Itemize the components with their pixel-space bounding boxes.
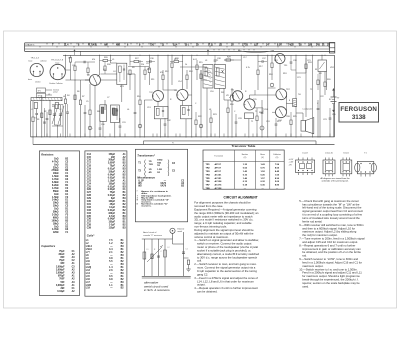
svg-text:base: base xyxy=(29,61,33,63)
wire xyxy=(65,55,67,70)
svg-text:1kΩ: 1kΩ xyxy=(54,226,59,228)
wire xyxy=(191,55,193,137)
svg-text:AC151: AC151 xyxy=(215,173,223,176)
wire xyxy=(148,55,150,68)
svg-text:L6: L6 xyxy=(127,109,129,111)
svg-text:4.7k: 4.7k xyxy=(246,67,250,69)
svg-text:1-5kΩ: 1-5kΩ xyxy=(52,197,59,199)
svg-text:75pF: 75pF xyxy=(110,166,116,168)
svg-text:in Sch. A receivers.: in Sch. A receivers. xyxy=(144,288,171,292)
component table column 2 box xyxy=(85,151,127,296)
svg-text:R19: R19 xyxy=(283,73,287,75)
battery 9V xyxy=(331,96,337,98)
resistor R25 xyxy=(290,120,292,125)
svg-text:1-5kΩ: 1-5kΩ xyxy=(52,176,59,178)
svg-text:console “V” receivers: console “V” receivers xyxy=(143,235,162,237)
svg-text:C12: C12 xyxy=(146,63,150,65)
svg-text:used.: used. xyxy=(302,284,309,288)
svg-text:STAGE 5: STAGE 5 xyxy=(25,44,35,47)
svg-text:aerial: aerial xyxy=(178,231,183,233)
transistor pinout view TR.1,2,3 xyxy=(30,63,43,76)
svg-text:TR7: TR7 xyxy=(286,89,290,91)
svg-text:80F: 80F xyxy=(61,257,66,259)
svg-text:R12: R12 xyxy=(165,71,169,73)
resistor R9 xyxy=(129,70,131,75)
svg-text:Loudspeaker: Loudspeaker xyxy=(303,107,313,110)
svg-text:Capacitors: Capacitors xyxy=(41,244,55,248)
resistor R6 xyxy=(74,95,76,100)
transistor TR8 xyxy=(276,107,287,118)
svg-text:FLT(4.6): FLT(4.6) xyxy=(88,44,97,47)
svg-text:T2: T2 xyxy=(216,60,218,62)
electrolytic capacitor C20 xyxy=(270,83,274,87)
resistor R3 xyxy=(49,110,51,115)
chassis bottom rail wire xyxy=(31,136,335,138)
svg-text:AF117: AF117 xyxy=(215,167,222,170)
svg-text:Collector: Collector xyxy=(273,153,281,156)
IF transformer IFT3 box xyxy=(181,106,192,119)
capacitor C2 xyxy=(46,112,48,118)
wire xyxy=(223,88,225,100)
aerial inset vertical wire 4 xyxy=(164,239,166,276)
svg-text:R26: R26 xyxy=(104,57,108,59)
svg-text:100µF: 100µF xyxy=(108,201,115,203)
svg-text:700F: 700F xyxy=(59,279,65,281)
svg-text:C35: C35 xyxy=(87,216,92,218)
svg-text:Miscellaneous: Miscellaneous xyxy=(137,175,155,179)
resistor R16 xyxy=(227,108,229,113)
capacitor C5 xyxy=(84,105,86,112)
svg-text:R18: R18 xyxy=(269,74,273,76)
detector winding xyxy=(216,68,219,76)
svg-text:270kΩ: 270kΩ xyxy=(52,170,59,172)
wire xyxy=(219,88,221,137)
svg-text:3(6): 3(6) xyxy=(308,45,312,47)
coil base diagram driver transformer xyxy=(341,152,352,177)
aerial inset coil 1 xyxy=(143,252,146,259)
svg-text:(7.3): (7.3) xyxy=(208,45,213,47)
capacitor C34 xyxy=(275,123,278,125)
svg-text:CIRCUIT ALIGNMENT: CIRCUIT ALIGNMENT xyxy=(224,195,258,199)
svg-text:R23: R23 xyxy=(213,114,217,116)
svg-text:L3/L4: L3/L4 xyxy=(86,245,93,248)
svg-text:2): 2) xyxy=(162,45,164,47)
svg-text:R30: R30 xyxy=(107,64,111,66)
output transformer T1 diagram xyxy=(355,153,377,177)
svg-text:emitter: emitter xyxy=(35,81,41,84)
svg-text:200pF: 200pF xyxy=(108,160,115,162)
resistor R26 xyxy=(103,59,108,61)
svg-text:AF117: AF117 xyxy=(215,163,222,166)
svg-text:1k: 1k xyxy=(185,64,187,66)
resistor R5 xyxy=(69,58,71,63)
svg-text:0.01µF: 0.01µF xyxy=(108,169,116,171)
svg-text:R1: R1 xyxy=(37,119,39,121)
svg-text:R6: R6 xyxy=(77,91,79,93)
svg-text:C34: C34 xyxy=(87,212,92,215)
svg-text:75pF: 75pF xyxy=(59,260,65,262)
capacitor C40 xyxy=(43,121,46,123)
component value annotations xyxy=(37,57,336,127)
svg-text:7Ω: 7Ω xyxy=(149,161,152,163)
capacitor C32 xyxy=(164,123,167,125)
svg-text:R15: R15 xyxy=(199,62,203,64)
svg-text:C22: C22 xyxy=(320,96,324,98)
svg-text:4Ω: 4Ω xyxy=(149,171,152,174)
svg-text:2,000pF: 2,000pF xyxy=(56,266,65,268)
resistor R10 xyxy=(139,100,141,105)
wire xyxy=(295,55,297,98)
IFT1 capacitor C8 xyxy=(123,68,125,70)
svg-text:75pF: 75pF xyxy=(59,251,65,253)
svg-text:L3: L3 xyxy=(48,94,50,96)
aerial inset arrow xyxy=(147,247,162,262)
svg-text:C38: C38 xyxy=(217,58,221,60)
svg-text:29F: 29F xyxy=(111,157,116,159)
svg-text:L1: L1 xyxy=(31,109,33,111)
svg-text:22kΩ: 22kΩ xyxy=(53,167,59,169)
svg-text:TP2: TP2 xyxy=(38,96,41,98)
svg-text:C35: C35 xyxy=(332,114,336,116)
svg-text:C32: C32 xyxy=(167,120,171,122)
svg-text:C32: C32 xyxy=(87,207,92,209)
wire xyxy=(240,55,242,90)
negative supply rail wire xyxy=(33,144,335,146)
resistor R17 xyxy=(257,70,259,75)
svg-text:AC128: AC128 xyxy=(215,187,223,190)
svg-text:(L)4: (L)4 xyxy=(173,44,178,47)
svg-text:0.02µF: 0.02µF xyxy=(108,177,116,179)
svg-text:R7: R7 xyxy=(82,96,84,98)
svg-text:6-8kΩ: 6-8kΩ xyxy=(52,182,59,184)
aerial inset vertical wire 1 xyxy=(143,239,145,276)
capacitor C10 xyxy=(134,100,136,112)
svg-text:4-7kΩ: 4-7kΩ xyxy=(52,178,59,181)
svg-text:320pF: 320pF xyxy=(108,213,115,215)
svg-text:R5: R5 xyxy=(73,65,75,67)
IFT3 capacitor xyxy=(187,109,189,111)
svg-text:C30: C30 xyxy=(101,124,105,126)
capacitor C36 xyxy=(149,60,151,63)
svg-text:L1: L1 xyxy=(147,249,149,251)
svg-text:8µF: 8µF xyxy=(111,198,116,200)
svg-text:4-7kΩ: 4-7kΩ xyxy=(52,160,59,163)
svg-text:C20: C20 xyxy=(87,172,92,174)
resistor R4 xyxy=(64,99,66,104)
resistor R29 xyxy=(226,59,231,61)
svg-text:2,000pF: 2,000pF xyxy=(56,273,65,275)
svg-text:C13: C13 xyxy=(147,107,151,109)
svg-text:AC176: AC176 xyxy=(215,184,223,187)
transistor TR1 xyxy=(90,75,101,86)
oscillator coil box xyxy=(203,65,213,89)
svg-text:0.04µF: 0.04µF xyxy=(108,188,116,191)
svg-text:Resistors: Resistors xyxy=(41,153,54,157)
svg-text:C28: C28 xyxy=(87,195,92,197)
svg-text:C16: C16 xyxy=(210,91,214,93)
svg-text:*: * xyxy=(137,191,138,193)
svg-text:R33: R33 xyxy=(308,62,312,64)
svg-text:R31: R31 xyxy=(147,69,151,71)
aerial coil L1 xyxy=(34,103,37,109)
resistor R32 xyxy=(200,74,202,79)
svg-text:1kΩ: 1kΩ xyxy=(54,209,59,211)
junction dots on rails xyxy=(65,55,66,56)
svg-text:Aerial circuit of: Aerial circuit of xyxy=(143,231,157,234)
bias network wire xyxy=(75,61,95,63)
transistor TR2 xyxy=(153,91,164,102)
resistor R36 xyxy=(87,68,89,73)
svg-text:P1: P1 xyxy=(172,143,174,145)
svg-text:to 30V d.c. range across the l: to 30V d.c. range across the loudspeaker… xyxy=(197,255,258,259)
resistor R34 xyxy=(317,80,319,85)
svg-text:TR.1,2,3: TR.1,2,3 xyxy=(31,57,40,59)
svg-text:4-7kΩ: 4-7kΩ xyxy=(52,228,59,231)
svg-text:L5/L6: L5/L6 xyxy=(86,249,93,251)
svg-text:C19: C19 xyxy=(266,121,270,123)
svg-text:3,000pF: 3,000pF xyxy=(56,285,65,287)
svg-text:Transistor: Transistor xyxy=(214,155,223,158)
aerial coil L2 xyxy=(55,103,58,109)
wire xyxy=(94,86,96,137)
svg-text:C30: C30 xyxy=(87,201,92,203)
IF transformer box L5 xyxy=(100,105,107,122)
svg-text:underside of the printed panel: underside of the printed panel. xyxy=(321,180,348,183)
wire xyxy=(305,55,307,117)
svg-text:3,000pF: 3,000pF xyxy=(56,269,65,271)
svg-text:C24: C24 xyxy=(87,182,92,185)
svg-text:–1.6V: –1.6V xyxy=(289,162,294,164)
svg-text:39kΩ: 39kΩ xyxy=(53,212,59,214)
svg-text:(V): (V) xyxy=(276,157,279,159)
svg-text:aerial: aerial xyxy=(53,92,58,94)
transistor pinout view TR.4,5,6,7,8 xyxy=(50,64,65,79)
svg-text:C37: C37 xyxy=(262,58,266,60)
svg-text:(V): (V) xyxy=(244,157,247,159)
svg-text:L9: L9 xyxy=(205,60,207,62)
svg-text:50F: 50F xyxy=(61,282,66,284)
svg-text:0.01: 0.01 xyxy=(193,59,197,61)
tuning gang frame xyxy=(52,104,63,106)
svg-text:Emitter: Emitter xyxy=(242,153,249,156)
svg-text:AC128: AC128 xyxy=(215,180,223,183)
wire xyxy=(312,55,314,137)
svg-text:receivers.: receivers. xyxy=(141,205,152,207)
resistor R18 xyxy=(271,63,273,68)
IFT1 tuned winding L5 xyxy=(119,66,122,72)
svg-text:17-25: 17-25 xyxy=(242,45,249,47)
svg-text:0.04µF: 0.04µF xyxy=(108,173,116,176)
electrolytic capacitor C15 xyxy=(199,124,203,128)
svg-text:be obtained, and the position: be obtained, and the position of L2 on t… xyxy=(302,250,361,254)
IFT3 winding xyxy=(182,108,185,115)
wire xyxy=(286,96,288,111)
aerial inset top rail wire xyxy=(142,238,173,240)
driver transformer T1 box xyxy=(245,113,254,119)
svg-text:VR2: VR2 xyxy=(330,67,334,69)
wire xyxy=(80,51,82,55)
svg-text:L5-L8: L5-L8 xyxy=(302,153,308,155)
svg-text:0.01µF: 0.01µF xyxy=(108,195,116,197)
svg-text:TR.4,5,6,7,8: TR.4,5,6,7,8 xyxy=(51,59,64,61)
svg-text:W1: W1 xyxy=(221,92,224,94)
svg-text:L15: L15 xyxy=(86,276,91,278)
svg-text:C17: C17 xyxy=(87,163,92,165)
component table column 1 box xyxy=(39,151,79,296)
resistor R23 xyxy=(210,118,212,123)
svg-text:C39: C39 xyxy=(87,228,92,230)
wire xyxy=(249,95,251,99)
svg-text:C16: C16 xyxy=(87,160,92,162)
svg-text:L13: L13 xyxy=(86,270,91,272)
svg-text:C17: C17 xyxy=(243,57,247,59)
svg-text:L14: L14 xyxy=(86,272,91,275)
svg-text:C33: C33 xyxy=(87,210,92,212)
svg-text:+0.1V: +0.1V xyxy=(289,159,295,161)
svg-text:IFT1: IFT1 xyxy=(120,86,124,88)
svg-text:3-9kΩ: 3-9kΩ xyxy=(52,200,59,202)
electrolytic capacitor C11 xyxy=(138,124,142,128)
svg-text:R20: R20 xyxy=(327,79,331,81)
top supply rail wire xyxy=(63,54,335,56)
svg-text:470: 470 xyxy=(160,72,163,74)
resistor R8 xyxy=(89,110,91,115)
svg-text:R29: R29 xyxy=(227,57,231,59)
svg-text:150µF: 150µF xyxy=(108,183,115,185)
horizontal link wires xyxy=(85,79,90,81)
svg-text:base: base xyxy=(28,79,32,81)
capacitor C31 xyxy=(119,125,122,127)
svg-text:R22: R22 xyxy=(198,116,202,118)
svg-text:+: + xyxy=(92,128,93,130)
coil L6 xyxy=(112,108,115,114)
aerial inset bottom rails xyxy=(142,275,191,277)
diode W1 xyxy=(222,70,224,73)
svg-text:TR8: TR8 xyxy=(286,116,290,118)
wire xyxy=(143,100,145,137)
resistor R27 xyxy=(134,60,139,62)
svg-text:R2: R2 xyxy=(44,111,46,113)
resistor R7 xyxy=(79,100,81,105)
wire xyxy=(41,95,43,137)
svg-text:970µF: 970µF xyxy=(58,276,65,278)
wire xyxy=(267,55,269,137)
svg-text:‖: ‖ xyxy=(137,203,138,205)
svg-text:T2: T2 xyxy=(310,89,312,91)
aerial circuit inset diagram xyxy=(142,228,191,279)
component table column 3 box xyxy=(135,149,187,222)
svg-text:R3: R3 xyxy=(52,106,54,108)
ferrite rod aerial xyxy=(31,98,62,101)
loudspeaker xyxy=(301,121,306,132)
svg-text:L12§: L12§ xyxy=(86,267,92,269)
svg-text:can be obtained.: can be obtained. xyxy=(197,290,218,294)
external aerial socket xyxy=(170,228,175,233)
svg-text:4-7kΩ: 4-7kΩ xyxy=(52,187,59,190)
svg-text:C1: C1 xyxy=(186,249,188,251)
tuning gang VC2 xyxy=(60,105,62,125)
alignment text right column xyxy=(299,199,365,289)
resistor R35 xyxy=(74,66,76,71)
svg-text:Emitter Collector: Emitter Collector xyxy=(50,82,64,85)
svg-text:3138: 3138 xyxy=(352,114,366,121)
volume control VR1 xyxy=(231,95,234,101)
svg-text:C23: C23 xyxy=(87,180,92,182)
wire xyxy=(319,72,321,137)
svg-text:T1: T1 xyxy=(255,111,257,113)
svg-text:C22: C22 xyxy=(87,177,92,179)
wire junction xyxy=(75,80,76,81)
IF transformer box lower xyxy=(111,105,120,123)
svg-text:C39: C39 xyxy=(293,60,297,62)
svg-text:AF117: AF117 xyxy=(215,170,222,173)
wire xyxy=(110,55,112,63)
padder capacitor xyxy=(66,111,69,113)
svg-text:R10: R10 xyxy=(137,96,141,98)
svg-text:95F: 95F xyxy=(61,263,66,265)
schematic right edge wire xyxy=(334,55,336,137)
svg-text:(L)7: (L)7 xyxy=(254,45,259,47)
svg-text:1kΩ: 1kΩ xyxy=(54,164,59,166)
wire xyxy=(121,85,123,103)
svg-text:(V): (V) xyxy=(261,157,264,159)
capacitor C41 xyxy=(83,61,85,64)
svg-text:Driver: Driver xyxy=(344,152,350,155)
electrolytic capacitor C6 xyxy=(88,126,92,130)
IF transformer box L6 inner winding xyxy=(113,109,118,116)
svg-text:C21: C21 xyxy=(87,174,92,176)
capacitor C39 xyxy=(290,61,293,63)
tuning dial scale bar xyxy=(25,43,335,52)
svg-text:150µF: 150µF xyxy=(108,154,115,156)
svg-text:2-2kΩ: 2-2kΩ xyxy=(52,214,59,216)
svg-text:C26: C26 xyxy=(87,189,92,191)
aerial inset right branch wire xyxy=(172,239,174,244)
svg-text:0.04µF: 0.04µF xyxy=(57,290,65,293)
model number box FERGUSON 3138 xyxy=(339,103,379,123)
svg-text:2,000F: 2,000F xyxy=(108,163,116,165)
wire xyxy=(49,100,51,137)
IFT2 capacitor xyxy=(162,110,164,112)
svg-text:Coils*: Coils* xyxy=(87,234,96,238)
svg-text:R19: R19 xyxy=(274,60,278,62)
svg-text:56kΩ: 56kΩ xyxy=(53,191,59,193)
resistor R20 xyxy=(324,82,326,87)
upper bias resistor network wires xyxy=(128,66,149,68)
svg-text:C5: C5 xyxy=(86,101,88,103)
resistor R22 xyxy=(195,120,197,125)
svg-text:base: base xyxy=(56,63,60,65)
svg-text:R27: R27 xyxy=(135,58,139,60)
capacitor C37 xyxy=(261,60,263,63)
svg-text:150µF: 150µF xyxy=(108,222,115,224)
svg-text:C23: C23 xyxy=(323,119,327,121)
IFT2 winding xyxy=(156,108,159,115)
svg-text:L2: L2 xyxy=(168,247,170,249)
svg-text:7Ω: 7Ω xyxy=(157,165,160,167)
transistor TR7 xyxy=(276,89,287,100)
svg-text:TP1: TP1 xyxy=(38,90,41,92)
resistor R33 xyxy=(305,64,307,69)
svg-text:1-5Ω: 1-5Ω xyxy=(157,169,162,171)
wire xyxy=(206,88,208,137)
resistor R28 xyxy=(174,60,179,62)
svg-text:C33: C33 xyxy=(238,118,242,120)
svg-text:8: 8 xyxy=(289,100,290,102)
transistor TR5 xyxy=(244,99,255,110)
svg-text:C36: C36 xyxy=(150,58,154,60)
svg-text:9-7µF: 9-7µF xyxy=(109,216,116,218)
